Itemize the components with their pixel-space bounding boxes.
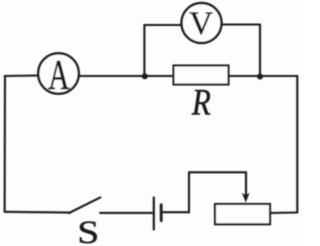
- wire bottom-right horizontal to rheostat: [270, 211, 297, 214]
- wire right junction to right edge: [260, 75, 297, 77]
- ammeter A: [38, 53, 79, 94]
- switch S blade (open): [69, 197, 100, 213]
- wire ammeter to left junction: [79, 75, 145, 77]
- wire bottom-left horizontal to switch hinge: [5, 211, 70, 214]
- svg-text:V: V: [189, 6, 213, 42]
- wire left vertical: [4, 76, 7, 212]
- rheostat body: [215, 204, 270, 224]
- wire voltmeter branch left vertical: [143, 25, 145, 76]
- voltmeter V: [182, 3, 222, 43]
- node left junction: [142, 73, 148, 79]
- wire battery to riser: [163, 211, 190, 213]
- wire rheostat wiper feed: up-over-down: [189, 172, 246, 212]
- wire voltmeter branch right vertical: [259, 25, 261, 77]
- svg-text:S: S: [77, 214, 99, 246]
- svg-text:A: A: [48, 51, 70, 99]
- node right junction: [257, 74, 263, 80]
- wire voltmeter branch top-right horizontal: [222, 23, 261, 25]
- wire switch fixed contact to battery: [100, 212, 153, 214]
- wire right vertical: [296, 76, 298, 212]
- rheostat wiper arrowhead: [242, 193, 250, 203]
- wire voltmeter branch top-left horizontal: [144, 24, 181, 26]
- wire resistor to right junction: [229, 75, 261, 77]
- battery cell: short plate: [160, 205, 163, 221]
- wire top-left horizontal to ammeter: [5, 74, 39, 77]
- svg-text:R: R: [191, 83, 211, 123]
- battery cell: long plate: [153, 198, 155, 230]
- resistor R body: [174, 66, 229, 85]
- wire left junction to resistor: [145, 75, 174, 77]
